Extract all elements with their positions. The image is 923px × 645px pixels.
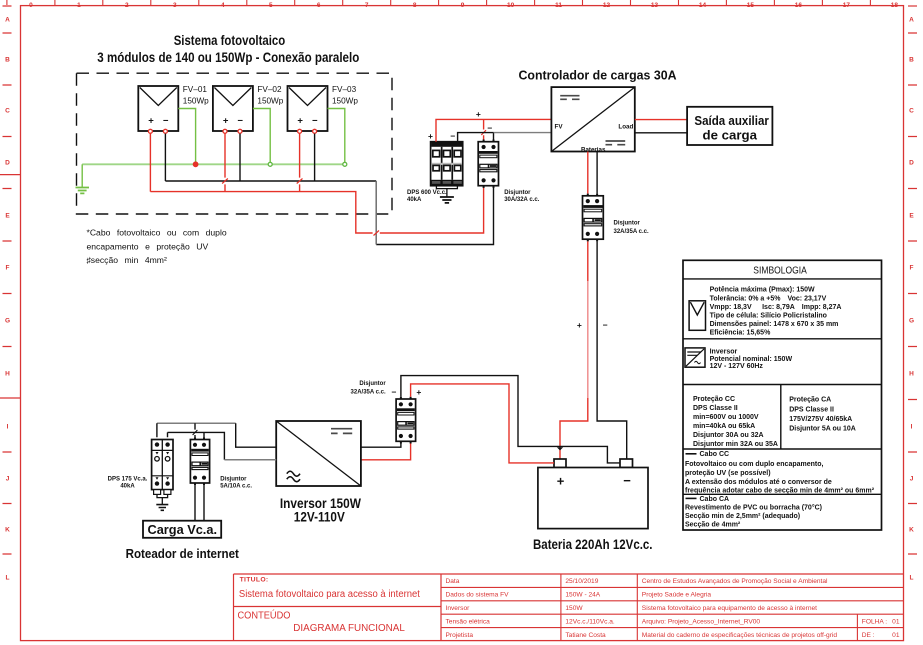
svg-text:I: I (7, 423, 9, 430)
svg-text:17: 17 (843, 2, 851, 9)
wire: AC line 1 (gray bus) (157, 422, 236, 424)
svg-text:Dados do sistema FV: Dados do sistema FV (446, 592, 510, 599)
svg-text:2: 2 (125, 2, 129, 9)
wire: AC line 2 (black) (168, 432, 225, 459)
svg-text:B: B (5, 56, 10, 63)
svg-text:D: D (909, 159, 914, 166)
svg-text:16: 16 (795, 2, 803, 9)
svg-text:Centro de Estudos Avançados de: Centro de Estudos Avançados de Promoção … (642, 578, 828, 585)
svg-text:9: 9 (461, 2, 465, 9)
svg-text:Roteador de internet: Roteador de internet (126, 546, 240, 561)
wire: module positive drops (red) (150, 134, 299, 192)
svg-text:Tatiane Costa: Tatiane Costa (565, 632, 606, 639)
label FV-01 150Wp (183, 85, 209, 106)
svg-text:B: B (909, 56, 914, 63)
svg-text:Baterias: Baterias (581, 146, 606, 153)
wire: green frame-ground pigtail module 1 (178, 109, 195, 165)
legend cabo CC (686, 453, 697, 455)
svg-text:+: + (577, 320, 582, 330)
svg-text:*Cabo fotovoltaico ou com dupl: *Cabo fotovoltaico ou com duplo (87, 228, 227, 238)
svg-text:4: 4 (221, 2, 225, 9)
svg-text:Carga Vc.a.: Carga Vc.a. (148, 522, 218, 537)
svg-text:Material do caderno de especif: Material do caderno de especificações té… (642, 632, 838, 639)
svg-text:Tolerância: 0% a +5% Voc: 23,: Tolerância: 0% a +5% Voc: 23,17V (710, 295, 827, 302)
svg-text:de carga: de carga (703, 128, 758, 143)
svg-text:H: H (5, 370, 10, 377)
circuit breaker Disjuntor 5A/10A c.c. (190, 437, 209, 485)
svg-text:Dimensões painel: 1478 x 670 x: Dimensões painel: 1478 x 670 x 35 mm (710, 321, 839, 328)
svg-text:150W: 150W (565, 605, 583, 612)
legend protecao CA column (789, 397, 856, 433)
svg-text:−: − (487, 123, 492, 133)
svg-text:Sistema fotovoltaico para aces: Sistema fotovoltaico para acesso à inter… (239, 589, 420, 600)
svg-text:Fotovoltaico ou com duplo enca: Fotovoltaico ou com duplo encapamento, (685, 461, 824, 468)
svg-text:1: 1 (77, 2, 81, 9)
wire: breaker to battery - (black) (597, 241, 627, 459)
wire: drops to DPS 175 (157, 423, 168, 437)
box: Saida auxiliar de carga (687, 107, 772, 145)
svg-text:Saída auxiliar: Saída auxiliar (694, 113, 769, 128)
svg-text:A: A (5, 16, 10, 23)
label Disjuntor 32A/35A c.c. (inverter) (351, 381, 387, 396)
svg-text:G: G (5, 317, 10, 324)
svg-text:encapamento e proteção UV: encapamento e proteção UV (87, 241, 209, 251)
svg-text:Tipo de célula: Silício Policr: Tipo de célula: Silício Policristalino (710, 313, 827, 320)
svg-text:DPS Classe II: DPS Classe II (789, 406, 834, 413)
svg-text:Disjuntor min 32A ou 35A: Disjuntor min 32A ou 35A (693, 441, 778, 448)
svg-text:J: J (910, 475, 914, 482)
svg-text:TITULO:: TITULO: (240, 577, 269, 584)
svg-text:14: 14 (699, 2, 707, 9)
svg-text:−: − (163, 116, 169, 127)
svg-text:G: G (909, 317, 914, 324)
svg-text:DE :: DE : (862, 632, 875, 639)
green bus junction dots (193, 162, 347, 167)
legend inverter text (710, 348, 793, 370)
svg-text:Secção min de 2,5mm² (adequado: Secção min de 2,5mm² (adequado) (685, 513, 800, 520)
wire: breaker to inverter DC (black) (361, 444, 401, 448)
svg-text:Proteção CA: Proteção CA (789, 397, 831, 404)
svg-text:Potencial nominal: 150W: Potencial nominal: 150W (710, 356, 793, 363)
wire: green earth bus (82, 163, 345, 165)
svg-text:+: + (476, 109, 481, 119)
title block table texts (446, 578, 900, 639)
svg-text:3 módulos de 140 ou 150Wp - Co: 3 módulos de 140 ou 150Wp - Conexão para… (97, 50, 359, 65)
svg-text:Arquivo: Projeto_Acesso_Intern: Arquivo: Projeto_Acesso_Internet_RV00 (642, 618, 761, 625)
module terminal dots (148, 129, 316, 133)
svg-text:150Wp: 150Wp (257, 96, 283, 105)
svg-text:30A/32A c.c.: 30A/32A c.c. (504, 197, 539, 203)
legend box SIMBOLOGIA (683, 260, 882, 530)
wire hop marks (222, 179, 379, 236)
svg-text:Tensão elétrica: Tensão elétrica (446, 618, 491, 625)
svg-text:Inversor: Inversor (710, 348, 738, 355)
svg-text:Disjuntor: Disjuntor (614, 220, 641, 226)
wire: AC line 1 corner to inverter (236, 423, 277, 447)
svg-text:Inversor: Inversor (446, 605, 471, 612)
title block frame (234, 574, 904, 641)
title block left texts (238, 577, 421, 635)
svg-text:01: 01 (892, 618, 900, 625)
svg-text:10: 10 (507, 2, 515, 9)
svg-text:FV–03: FV–03 (332, 85, 357, 94)
wire: module negative drops (black) (165, 134, 314, 181)
wire: breaker to inverter DC (red) (361, 444, 411, 460)
svg-text:−: − (450, 131, 455, 141)
svg-text:min=600V ou 1000V: min=600V ou 1000V (693, 414, 759, 421)
wire: negative bus to DC breaker (165, 181, 493, 245)
svg-text:FV–02: FV–02 (257, 85, 282, 94)
svg-text:3: 3 (173, 2, 177, 9)
svg-text:15: 15 (747, 2, 755, 9)
PV module FV-03 (288, 86, 328, 131)
svg-text:5: 5 (269, 2, 273, 9)
svg-text:175V/275V 40/65kA: 175V/275V 40/65kA (789, 416, 852, 423)
svg-text:18: 18 (891, 2, 899, 9)
svg-text:L: L (6, 574, 10, 581)
svg-text:32A/35A c.c.: 32A/35A c.c. (351, 390, 386, 396)
svg-text:40kA: 40kA (407, 197, 422, 203)
svg-text:min=40kA ou 65kA: min=40kA ou 65kA (693, 423, 755, 430)
svg-text:6: 6 (317, 2, 321, 9)
svg-text:Cabo CA: Cabo CA (700, 496, 730, 503)
label Disjuntor 30A/32A c.c. (504, 190, 539, 203)
svg-text:Cabo CC: Cabo CC (700, 451, 730, 458)
svg-text:12V-110V: 12V-110V (294, 510, 345, 525)
svg-text:150Wp: 150Wp (332, 96, 358, 105)
top ruler numbers (29, 2, 898, 9)
wire: positive bus to DC breaker (150, 187, 483, 233)
label DPS 600 Vc.c. 40kA (407, 190, 447, 203)
svg-text:Revestimento de PVC ou borrach: Revestimento de PVC ou borracha (70°C) (685, 503, 822, 511)
svg-text:11: 11 (555, 2, 562, 9)
charge controller U1 box (551, 87, 634, 153)
label Inversor 150W 12V-110V (280, 496, 361, 525)
svg-text:Sistema fotovoltaico: Sistema fotovoltaico (174, 33, 286, 48)
svg-text:DPS 600 Vc.c.: DPS 600 Vc.c. (407, 190, 447, 196)
svg-text:32A/35A c.c.: 32A/35A c.c. (614, 229, 649, 235)
svg-text:Data: Data (446, 578, 460, 585)
circuit breaker Disjuntor 32A/35A c.c. (battery) (583, 194, 604, 242)
svg-text:25/10/2019: 25/10/2019 (565, 578, 598, 585)
svg-text:K: K (5, 526, 10, 533)
wire: breaker to load box (195, 485, 204, 521)
ground below DPS 175 (156, 494, 168, 510)
svg-text:A extensão dos módulos até o c: A extensão dos módulos até o conversor d… (685, 479, 832, 486)
wire: green frame-ground pigtail module 3 (328, 109, 345, 165)
inverter U2 box (276, 421, 361, 486)
svg-text:Sistema fotovoltaico para equi: Sistema fotovoltaico para equipamento de… (642, 605, 817, 612)
svg-text:E: E (909, 212, 914, 219)
surge protector DPS 600 Vc.c. 40kA (431, 142, 463, 189)
svg-text:DPS Classe II: DPS Classe II (693, 405, 738, 412)
legend PV text (710, 287, 842, 337)
svg-text:J: J (6, 475, 10, 482)
wire: inverter breaker + to battery (red) (411, 384, 554, 463)
wire: AC line 2 gray segment to inverter (224, 459, 276, 461)
svg-text:F: F (910, 264, 914, 271)
svg-text:FV–01: FV–01 (183, 85, 208, 94)
svg-text:C: C (5, 107, 10, 114)
polarity labels above battery (577, 320, 608, 330)
svg-text:frequência adotar cabo de secç: frequência adotar cabo de secção min de … (685, 488, 875, 495)
wire: controller Baterias to breaker (red) (587, 152, 589, 194)
svg-text:5A/10A c.c.: 5A/10A c.c. (220, 484, 252, 490)
label FV-03 150Wp (332, 85, 358, 106)
svg-text:Projetista: Projetista (446, 632, 474, 639)
svg-text:Potência máxima (Pmax): 150W: Potência máxima (Pmax): 150W (710, 287, 815, 294)
svg-text:40kA: 40kA (120, 484, 135, 490)
svg-text:+: + (428, 131, 433, 141)
svg-text:Disjuntor 30A ou 32A: Disjuntor 30A ou 32A (693, 432, 764, 439)
svg-text:−: − (623, 473, 631, 488)
svg-text:13: 13 (651, 2, 659, 9)
svg-text:0: 0 (29, 2, 33, 9)
svg-text:+: + (148, 116, 154, 127)
wire hop at battery + crossing (557, 447, 563, 450)
left fold marks (0, 175, 21, 398)
svg-text:E: E (5, 212, 10, 219)
wire: Load to aux output (red) (635, 119, 687, 121)
PV module FV-01 (138, 86, 178, 131)
svg-text:CONTEÚDO: CONTEÚDO (238, 608, 291, 621)
svg-text:+: + (557, 474, 565, 489)
legend cabo CA (686, 497, 697, 499)
polarity labels at inverter breaker (392, 387, 422, 397)
svg-text:−: − (392, 387, 397, 397)
box: Carga Vc.a. (143, 521, 221, 538)
right ruler letters (909, 16, 914, 581)
top ruler ticks (7, 0, 871, 5)
svg-text:12V - 127V 60Hz: 12V - 127V 60Hz (710, 363, 764, 370)
svg-text:A: A (909, 16, 914, 23)
svg-text:+: + (416, 387, 421, 397)
ground (array frame, green) (76, 164, 90, 193)
legend inverter symbol (685, 348, 705, 367)
label Disjuntor 32A/35A c.c. (614, 220, 649, 235)
label FV-02 150Wp (257, 85, 283, 106)
svg-text:Load: Load (618, 124, 633, 131)
wire: controller Baterias to breaker (black) (596, 152, 598, 194)
svg-text:Projeto Saúde e Alegria: Projeto Saúde e Alegria (642, 592, 712, 599)
svg-text:Vmpp: 18,3V Isc: 8,79A Impp: Vmpp: 18,3V Isc: 8,79A Impp: 8,27A (710, 304, 842, 311)
svg-text:8: 8 (413, 2, 417, 9)
svg-text:−: − (603, 320, 608, 330)
wire: Load to aux output (black) (635, 132, 687, 134)
label DPS 175 Vc.a. 40kA (108, 477, 148, 490)
svg-text:−: − (237, 116, 243, 127)
svg-text:Disjuntor 5A ou 10A: Disjuntor 5A ou 10A (789, 425, 856, 432)
svg-text:L: L (910, 574, 914, 581)
svg-text:Proteção CC: Proteção CC (693, 396, 735, 403)
svg-text:01: 01 (892, 632, 900, 639)
wire: inverter breaker - to battery (black) (401, 376, 620, 463)
svg-text:K: K (909, 526, 914, 533)
svg-text:150W - 24A: 150W - 24A (565, 592, 600, 599)
svg-text:FOLHA :: FOLHA : (862, 618, 887, 625)
svg-text:7: 7 (365, 2, 369, 9)
wire: drops to breaker 5A (with hop) (195, 423, 204, 437)
svg-text:Secção de 4mm²: Secção de 4mm² (685, 522, 741, 529)
circuit breaker Disjuntor 32A/35A c.c. (inverter) (396, 397, 416, 444)
svg-text:12: 12 (603, 2, 611, 9)
left ruler dashes (3, 6, 12, 554)
legend PV module symbol (689, 301, 705, 331)
svg-text:DPS 175 Vc.a.: DPS 175 Vc.a. (108, 477, 148, 483)
label Disjuntor 5A/10A c.c. (220, 477, 252, 490)
svg-text:150Wp: 150Wp (183, 96, 209, 105)
svg-text:Disjuntor: Disjuntor (504, 190, 531, 196)
svg-text:+: + (223, 116, 229, 127)
svg-text:FV: FV (555, 123, 564, 130)
svg-text:−: − (312, 116, 318, 127)
dashed PV array boundary box (77, 73, 393, 214)
svg-text:Disjuntor: Disjuntor (359, 381, 386, 387)
svg-text:DIAGRAMA FUNCIONAL: DIAGRAMA FUNCIONAL (293, 623, 405, 634)
svg-text:Disjuntor: Disjuntor (220, 477, 247, 483)
PV module FV-02 (213, 86, 253, 131)
wire: green frame-ground pigtail module 2 (253, 109, 270, 165)
right ruler dashes (908, 33, 917, 554)
legend protecao CC column (693, 396, 778, 448)
ground below DPS 600 (440, 189, 454, 203)
surge protector DPS 175 Vc.a. 40kA (152, 440, 173, 495)
svg-text:+: + (297, 116, 303, 127)
svg-text:Controlador de cargas 30A: Controlador de cargas 30A (519, 68, 678, 83)
note: cable spec text (87, 228, 227, 265)
battery 220Ah 12Vcc (538, 459, 648, 529)
svg-text:I: I (911, 423, 913, 430)
svg-text:H: H (909, 370, 914, 377)
left ruler letters (5, 16, 10, 581)
svg-text:♯secção min 4mm²: ♯secção min 4mm² (87, 255, 167, 265)
wire: PV- feed to controller (black/gray) (458, 133, 494, 142)
wire: PV+ feed to controller (red) (436, 119, 551, 141)
svg-text:Eficiência: 15,65%: Eficiência: 15,65% (710, 330, 771, 337)
svg-text:proteção UV (se possível): proteção UV (se possível) (685, 470, 771, 477)
circuit breaker Disjuntor 30A/32A c.c. (478, 140, 498, 188)
svg-text:F: F (6, 264, 10, 271)
wire: breaker to battery + (red) (560, 241, 588, 459)
svg-text:D: D (5, 159, 10, 166)
svg-text:12Vc.c./110Vc.a.: 12Vc.c./110Vc.a. (565, 618, 615, 625)
svg-text:SIMBOLOGIA: SIMBOLOGIA (753, 265, 807, 277)
svg-text:C: C (909, 107, 914, 114)
polarity labels near DPS and breaker (428, 109, 492, 141)
svg-text:Bateria 220Ah 12Vc.c.: Bateria 220Ah 12Vc.c. (533, 537, 653, 552)
